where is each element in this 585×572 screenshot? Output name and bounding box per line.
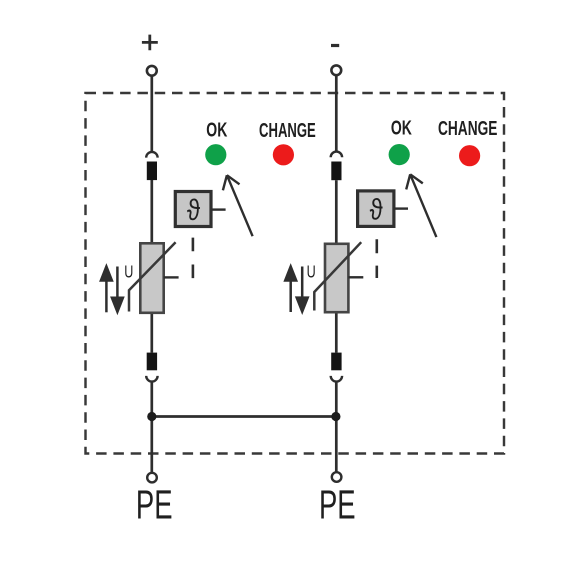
- svg-text:U: U: [124, 262, 133, 282]
- svg-text:ϑ: ϑ: [187, 192, 200, 226]
- svg-text:OK: OK: [391, 116, 412, 139]
- svg-text:OK: OK: [206, 118, 227, 141]
- svg-text:CHANGE: CHANGE: [438, 117, 497, 140]
- svg-text:PE: PE: [136, 482, 173, 528]
- svg-text:U: U: [307, 263, 316, 283]
- svg-text:PE: PE: [319, 482, 356, 528]
- svg-text:CHANGE: CHANGE: [259, 119, 316, 141]
- svg-text:ϑ: ϑ: [370, 192, 383, 226]
